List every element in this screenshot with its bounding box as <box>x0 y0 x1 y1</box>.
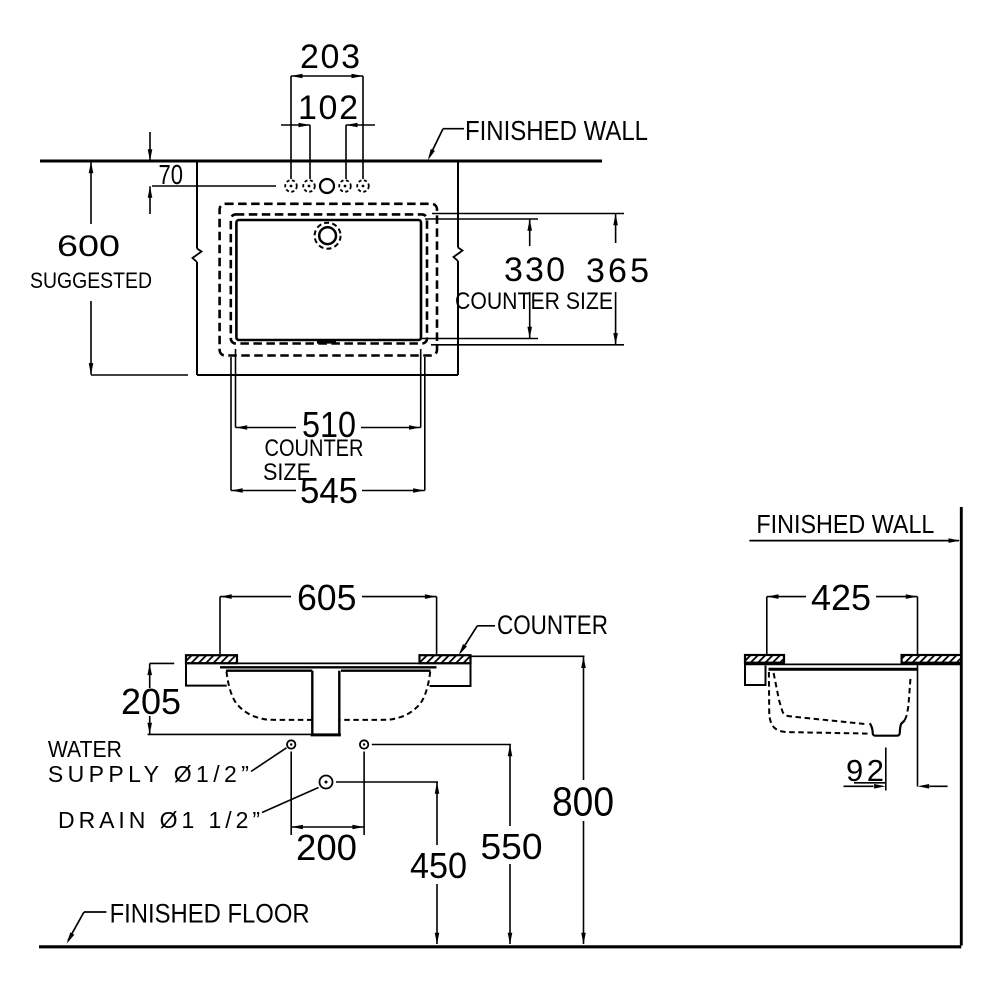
svg-text:FINISHED FLOOR: FINISHED FLOOR <box>110 899 310 929</box>
leader: water supply <box>251 748 287 772</box>
extension lines for 330/365 <box>421 214 624 345</box>
dimension text 550 <box>481 826 543 867</box>
faucet holes (4 small, top view) <box>285 180 369 192</box>
dimension 600 bottom extension line <box>91 374 188 376</box>
label COUNTER (front view) <box>497 610 608 640</box>
leader: counter label <box>459 626 495 655</box>
dimension 605 extension lines <box>220 597 437 654</box>
sink outer rim dashed rect (top view) <box>220 204 437 356</box>
dimension 70 arrows <box>148 132 153 214</box>
dimension text 70 <box>159 159 184 190</box>
svg-text:WATER: WATER <box>48 736 122 762</box>
counter fascia right (front view) <box>430 655 471 686</box>
dimension text 800 <box>552 779 614 825</box>
counter hatched block left (front view) <box>186 655 237 663</box>
drain point (front view) <box>320 776 333 789</box>
dimension 205 tick <box>150 662 175 664</box>
sink rim flange line (front view) <box>220 666 437 668</box>
sink inner rim dashed rect (top view) <box>231 214 427 343</box>
dimension text 365 <box>586 252 649 290</box>
dimension 605 line <box>220 594 437 599</box>
label SUPPLY diameter <box>48 761 249 787</box>
dimension 92 text underline <box>854 782 886 784</box>
dimension text 205 <box>121 681 181 722</box>
dimension text 203 <box>300 38 360 76</box>
dimension 200 extension lines <box>291 752 364 836</box>
svg-text:SUGGESTED: SUGGESTED <box>30 268 152 293</box>
dimension 102 extension lines <box>310 125 346 179</box>
dimension text 102 <box>298 89 358 127</box>
label DRAIN diameter <box>58 807 260 833</box>
dimension 330 line <box>527 219 532 339</box>
counter cut-out solid rect (top view) <box>236 220 421 340</box>
dimension 203 line <box>291 74 363 79</box>
counter outline (top view) <box>197 161 458 375</box>
leader underline: finished wall (side view) <box>749 538 960 543</box>
supply to 550 extension line <box>372 744 511 746</box>
dimension 545 line <box>231 488 425 493</box>
label SUGGESTED <box>30 268 152 293</box>
break symbol left counter edge <box>193 249 202 263</box>
svg-text:FINISHED WALL: FINISHED WALL <box>465 115 648 146</box>
counter underside line (side view) <box>745 663 961 665</box>
svg-text:600: 600 <box>57 230 120 263</box>
dimension text 545 <box>300 470 358 511</box>
dimension 203 extension lines <box>291 76 363 179</box>
dimension 800 top extension line <box>471 655 585 657</box>
water supply points (front view) <box>287 740 368 748</box>
dimension text 450 <box>410 845 467 886</box>
svg-text:COUNTER: COUNTER <box>497 610 608 640</box>
drain boss (side view) <box>870 720 905 736</box>
overflow hole (top view) <box>315 223 341 249</box>
dimension 510 line <box>236 425 421 430</box>
dimension text 200 <box>296 827 357 868</box>
dimension text 330 <box>504 251 565 289</box>
dimension 92 arrows <box>844 784 948 789</box>
label SIZE (under 510) <box>263 459 311 486</box>
drain mark bottom of cut-out (top view) <box>317 341 336 344</box>
label WATER <box>48 736 122 762</box>
svg-text:102: 102 <box>298 89 358 127</box>
break symbol right counter edge <box>454 248 463 262</box>
svg-text:DRAIN Ø1 1/2”: DRAIN Ø1 1/2” <box>58 807 260 833</box>
leader: drain <box>262 788 319 813</box>
sink rim inner line (front view) <box>226 670 431 672</box>
svg-text:COUNTER SIZE: COUNTER SIZE <box>455 288 613 315</box>
dimension text 510 <box>302 404 356 445</box>
svg-text:330: 330 <box>504 251 565 289</box>
dimension 365 line <box>613 214 618 345</box>
dimension text 425 <box>811 577 871 618</box>
svg-text:200: 200 <box>296 827 357 868</box>
label COUNTER SIZE (right) <box>455 288 613 315</box>
svg-text:70: 70 <box>159 159 184 190</box>
dimension 545 extension lines <box>231 357 425 491</box>
svg-text:205: 205 <box>121 681 181 722</box>
label COUNTER (under 510) <box>265 435 364 462</box>
dimension text 92 <box>846 753 884 788</box>
finished wall line (top view) <box>40 160 602 163</box>
counter hatched block left (side view) <box>745 655 784 663</box>
bowl hidden outer-left outline (side view) <box>769 672 870 734</box>
dimension 600 line <box>89 162 94 375</box>
dimension 102 arrows <box>281 123 375 128</box>
counter fascia left (front view) <box>186 655 227 685</box>
dimension 205 arrows <box>147 663 152 734</box>
dimension 200 line <box>291 825 364 830</box>
bowl hidden right wall (side view) <box>905 677 911 721</box>
dimension 510 extension lines <box>236 349 421 428</box>
dimension 70 reference line <box>152 185 276 187</box>
dimension 205 bottom extension line <box>148 733 311 735</box>
label FINISHED WALL (side view) <box>756 509 934 539</box>
label FINISHED FLOOR <box>110 899 310 929</box>
svg-text:550: 550 <box>481 826 543 867</box>
svg-text:365: 365 <box>586 252 649 290</box>
dimension 425 extension lines <box>767 597 918 787</box>
counter hatched block right (side view) <box>902 655 962 663</box>
counter fascia (side view) <box>745 655 766 685</box>
dimension 800 line <box>581 656 586 944</box>
svg-text:425: 425 <box>811 577 871 618</box>
leader: finished floor <box>67 912 107 944</box>
drain funnel (front view) <box>311 671 341 735</box>
dimension 92 extension line <box>885 748 887 791</box>
svg-text:FINISHED WALL: FINISHED WALL <box>756 509 934 539</box>
svg-text:800: 800 <box>552 779 614 825</box>
finished floor line <box>39 945 961 948</box>
dimension text 605 <box>297 577 357 618</box>
svg-text:450: 450 <box>410 845 467 886</box>
counter hatched block right (front view) <box>420 655 471 663</box>
dimension 450 line <box>435 782 440 944</box>
svg-text:203: 203 <box>300 38 360 76</box>
label FINISHED WALL (top view) <box>465 115 648 146</box>
dimension text 600 <box>57 230 120 263</box>
svg-text:COUNTER: COUNTER <box>265 435 364 462</box>
bowl hidden inner-left outline (side view) <box>774 673 866 724</box>
bowl hidden outline left (front view) <box>227 672 313 720</box>
finished wall line (side view) <box>960 507 963 946</box>
svg-text:545: 545 <box>300 470 358 511</box>
svg-text:605: 605 <box>297 577 357 618</box>
dimension 550 line <box>508 745 513 945</box>
counter underside line (front view) <box>186 662 471 664</box>
sink rim line (side view) <box>769 668 918 671</box>
drain to 450 extension line <box>336 781 438 783</box>
center hole (top view) <box>320 179 334 193</box>
svg-text:SUPPLY Ø1/2”: SUPPLY Ø1/2” <box>48 761 249 787</box>
leader: finished wall (top view) <box>428 129 464 161</box>
bowl hidden outline right (front view) <box>339 672 430 720</box>
dimension 425 line <box>767 594 918 599</box>
